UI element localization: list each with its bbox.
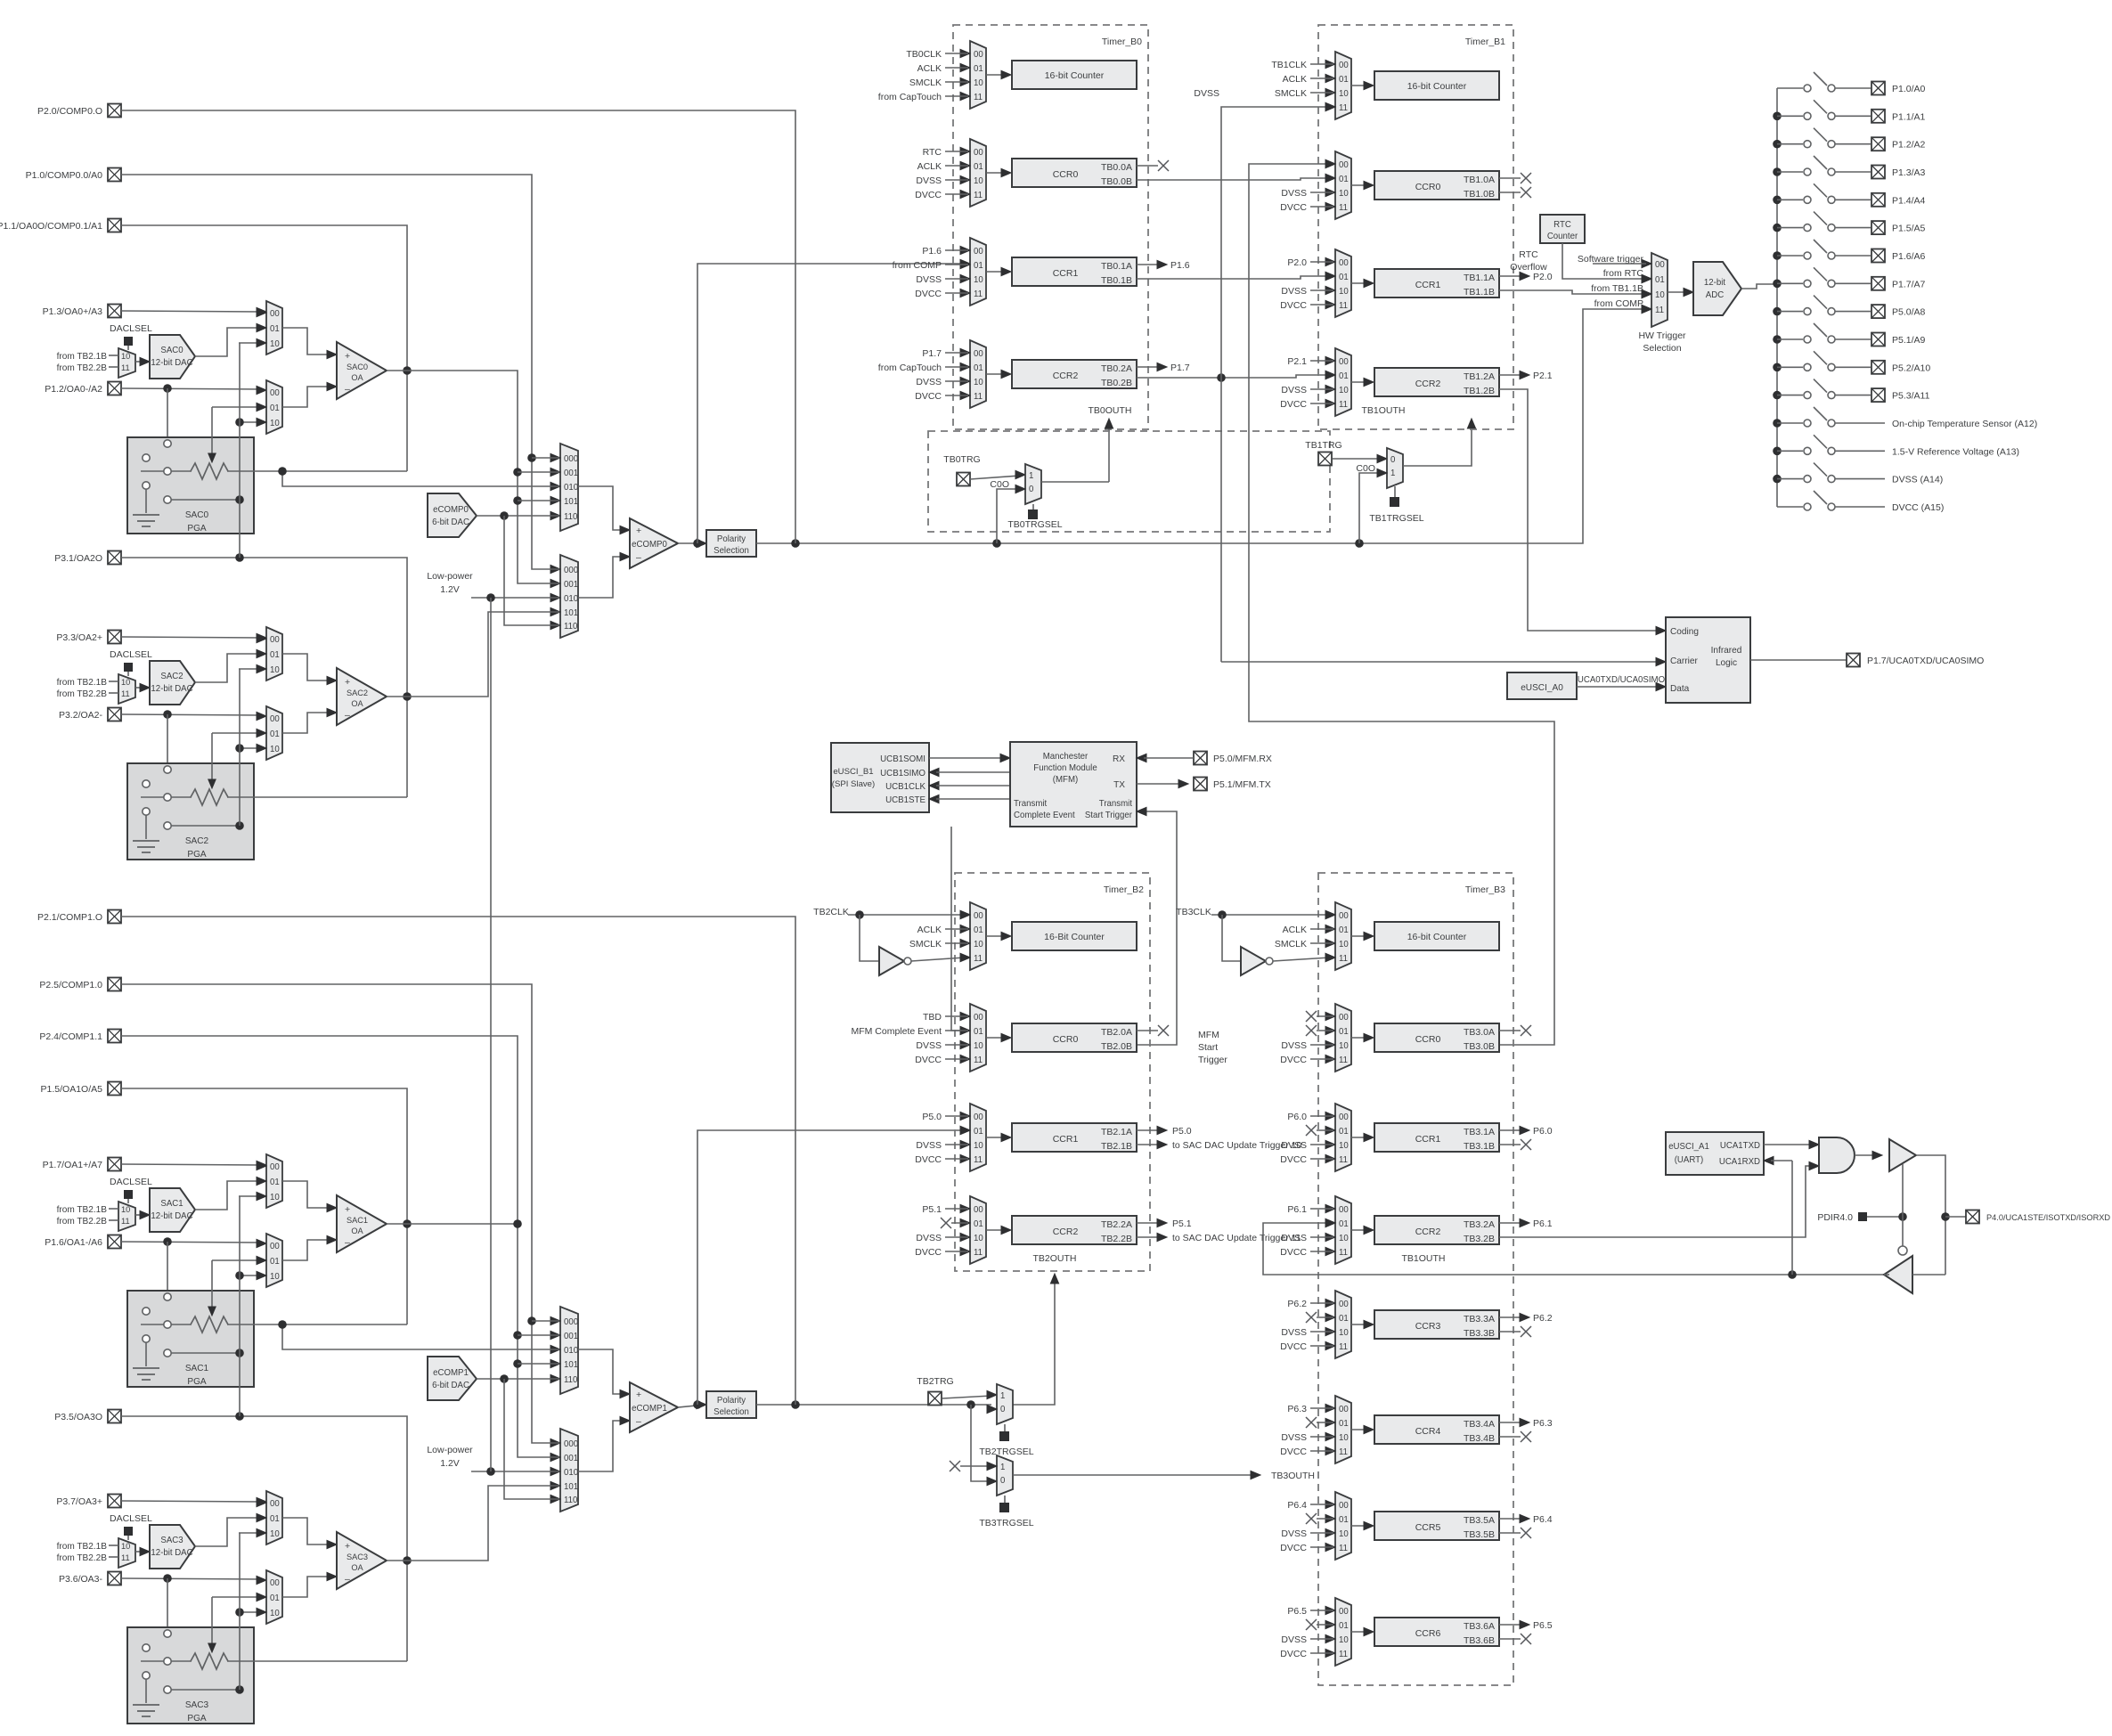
wire P1.1/OA0O feedback to SAC0 PGA [121,225,407,471]
dac SAC0 12-bit DAC [150,335,195,379]
pga SAC1 PGA block [127,1291,254,1387]
mux [970,340,986,408]
wire [171,499,240,501]
svg-text:DVCC: DVCC [1280,1055,1307,1065]
pin P1.7/OA1+/A7 [108,1158,121,1171]
wire TB0.2B to Timer_B1 CCR2 [1137,375,1330,378]
svg-text:00: 00 [1339,61,1349,70]
svg-text:00: 00 [270,1499,280,1509]
block Timer_B0 dashed box [953,25,1148,429]
svg-text:Timer_B1: Timer_B1 [1465,37,1505,47]
svg-text:CCR2: CCR2 [1053,371,1079,381]
svg-text:DVSS (A14): DVSS (A14) [1892,475,1943,485]
svg-text:P3.1/OA2O: P3.1/OA2O [54,553,102,564]
wire [1351,935,1367,937]
mux TB3 trigger select [997,1455,1013,1496]
svg-text:UCB1SIMO: UCB1SIMO [880,769,926,778]
svg-text:UCA0TXD/UCA0SIMO: UCA0TXD/UCA0SIMO [1578,675,1666,685]
register CCR0 [1374,1023,1499,1052]
svg-text:10: 10 [121,352,130,361]
svg-text:01: 01 [1339,273,1349,282]
wire [257,1498,266,1506]
svg-text:P2.1: P2.1 [1287,356,1307,367]
mux SAC2 positive input [266,627,282,681]
svg-text:00: 00 [270,1162,280,1172]
wire TB2 trigger to TB2OUTH [1013,1279,1055,1405]
wire [109,692,118,694]
wire [171,1689,240,1691]
svg-text:TB0.2B: TB0.2B [1101,378,1132,388]
svg-text:P5.0/MFM.RX: P5.0/MFM.RX [1213,754,1272,764]
svg-text:SAC0: SAC0 [347,363,368,371]
wire [1351,381,1367,383]
junction [513,496,522,505]
svg-text:TB1OUTH: TB1OUTH [1361,405,1405,416]
svg-text:DACLSEL: DACLSEL [110,1177,152,1187]
svg-text:TB2.1B: TB2.1B [1101,1141,1132,1152]
wire TB0 trigger output [1041,481,1109,483]
wire [109,1219,118,1221]
svg-text:01: 01 [1339,175,1349,184]
svg-text:from COMP: from COMP [893,260,942,271]
svg-text:DVSS: DVSS [916,175,942,186]
wire TB1.1A output P2.0 [1499,275,1521,277]
svg-text:ACLK: ACLK [917,63,942,74]
svg-text:1: 1 [1390,469,1395,478]
svg-text:00: 00 [1339,1013,1349,1023]
svg-text:P1.3/A3: P1.3/A3 [1892,167,1926,178]
svg-text:11: 11 [974,954,983,964]
svg-text:TB2.1A: TB2.1A [1101,1127,1132,1137]
svg-text:–: – [345,1574,350,1585]
svg-text:+: + [345,351,350,362]
wire [1351,1037,1367,1039]
wire [1351,282,1367,284]
mux SAC2 negative input [266,706,282,760]
mux [1335,1492,1351,1560]
wire [578,557,624,598]
junction [500,1374,509,1383]
wire UCA1RXD input [1764,1156,1774,1164]
svg-text:P3.7/OA3+: P3.7/OA3+ [56,1496,102,1507]
wire TB3.2B to AND gate [1499,1166,1814,1237]
pin P3.3/OA2+ [108,631,121,644]
svg-text:TB3.4B: TB3.4B [1464,1433,1495,1444]
switch ADC channel On-chip Temperature Sensor (A12) [1773,419,1782,428]
svg-text:(SPI Slave): (SPI Slave) [832,779,875,789]
wire cascade OA3O to SAC1 10 inputs [239,1353,241,1416]
wire [135,1551,144,1553]
svg-text:00: 00 [974,50,983,60]
svg-text:+: + [345,677,350,688]
svg-text:0: 0 [1390,455,1395,465]
wire [532,1320,559,1322]
svg-text:TB0.1B: TB0.1B [1101,275,1132,286]
svg-text:P2.4/COMP1.1: P2.4/COMP1.1 [39,1031,102,1042]
svg-text:P1.6/A6: P1.6/A6 [1892,251,1926,262]
svg-text:11: 11 [1339,1248,1348,1258]
dac SAC1 12-bit DAC [150,1188,195,1232]
mux SAC1 negative input [266,1234,282,1287]
mux [1335,348,1351,416]
svg-text:+: + [636,526,641,536]
wire [986,1137,1005,1138]
svg-text:P5.3/A11: P5.3/A11 [1892,391,1930,402]
junction [1898,1212,1907,1221]
wire OA3 output to eCOMP1 101 input [387,1486,559,1561]
wire [195,1181,261,1210]
wire IR output to pin [1750,659,1847,661]
svg-text:UCB1STE: UCB1STE [885,795,926,805]
svg-text:+: + [345,1541,350,1552]
pin P2.5/COMP1.0 [108,978,121,991]
counter 16-bit Counter [1012,922,1137,950]
junction [163,710,172,719]
svg-text:10: 10 [270,1272,280,1282]
wire TB1 trigger output to TB1OUTH [1403,424,1472,466]
svg-text:01: 01 [1339,1127,1349,1137]
block Manchester Function Module MFM [1010,742,1137,827]
junction [235,495,244,504]
wire TB3.4A output P6.3 [1499,1422,1521,1423]
svg-text:Timer_B3: Timer_B3 [1465,884,1505,895]
svg-text:CCR2: CCR2 [1415,1227,1441,1237]
wire [239,1195,261,1197]
wire polarity1 output bus [756,1404,991,1406]
pin P1.7/A7 [1871,277,1885,290]
register CCR2 [1012,1216,1137,1244]
svg-text:from TB2.1B: from TB2.1B [57,1205,108,1215]
register CCR0 [1012,1023,1137,1052]
svg-text:10: 10 [270,1609,280,1618]
wire PGA1 tap to eCOMP1 010 [282,1324,559,1349]
svg-text:11: 11 [974,1248,983,1258]
wire [135,687,144,689]
pin P1.5/A5 [1871,221,1885,234]
svg-text:11: 11 [1655,306,1664,315]
mux TB2 trigger select [997,1384,1013,1424]
svg-text:UCB1SOMI: UCB1SOMI [880,754,926,764]
svg-text:from CapTouch: from CapTouch [878,363,942,373]
svg-text:P2.0: P2.0 [1287,257,1307,268]
svg-text:TB2.0A: TB2.0A [1101,1027,1132,1038]
wire [109,1208,118,1210]
svg-text:OA: OA [351,699,363,708]
block TB0 trigger dashed box [928,431,1330,532]
svg-text:11: 11 [1339,301,1348,311]
wire PGA0 tap to eCOMP0 010 [282,471,559,486]
svg-text:TB0CLK: TB0CLK [906,49,942,60]
svg-text:Counter: Counter [1547,232,1578,241]
mux [970,139,986,207]
wire [986,1229,1005,1231]
svg-text:DVSS: DVSS [1281,1432,1307,1443]
svg-text:SMCLK: SMCLK [909,77,942,88]
wire polarity to TB2 trigger [987,1405,997,1413]
wire [504,1379,559,1499]
mux SAC1 positive input [266,1154,282,1208]
mux [1335,1291,1351,1358]
junction [235,553,244,562]
wire [986,373,1005,375]
svg-text:10: 10 [1339,1635,1349,1645]
switch ADC channel P1.2/A2 [1773,140,1782,149]
svg-text:1: 1 [1000,1391,1005,1401]
pin P5.2/A10 [1871,361,1885,374]
svg-text:001: 001 [564,469,578,478]
wire MFM TX [1137,783,1181,785]
wire [578,486,624,530]
junction [1941,1212,1950,1221]
svg-text:110: 110 [564,1496,577,1505]
svg-text:0: 0 [1000,1405,1005,1414]
svg-text:1: 1 [1000,1463,1005,1472]
svg-text:10: 10 [1339,940,1349,950]
wire TB0.0B to Timer_B1 CCR0 [1137,178,1330,180]
svg-text:DVSS: DVSS [1281,188,1307,199]
svg-text:P6.3: P6.3 [1533,1418,1553,1429]
svg-text:TB3.6A: TB3.6A [1464,1621,1495,1632]
wire [1668,291,1686,293]
svg-text:Start Trigger: Start Trigger [1085,811,1133,820]
svg-text:10: 10 [974,275,983,285]
svg-text:Complete Event: Complete Event [1014,811,1075,820]
wire OA0 output to eCOMP0 001 inputs [387,371,559,583]
svg-text:12-bit DAC: 12-bit DAC [151,1548,192,1558]
wire TB2.2B output [1137,1236,1158,1238]
junction [235,1608,244,1617]
wire [282,654,331,681]
wire [282,1240,331,1260]
wire pin tap [1945,1216,1966,1218]
svg-text:DVCC: DVCC [915,190,942,200]
dac eCOMP0 6-bit DAC [428,493,477,537]
wire C0O to TB0 trigger [997,489,1020,543]
svg-text:P1.6/OA1-/A6: P1.6/OA1-/A6 [45,1237,102,1248]
block eUSCI_B1 SPI Slave [831,743,929,812]
svg-text:TBD: TBD [923,1012,942,1023]
wire low-power long vertical [490,598,492,1471]
wire [240,1275,261,1276]
wire [212,1596,261,1598]
mux [970,1196,986,1264]
wire [109,355,118,356]
wire MFM transmit start trigger from TB2.0B [1137,811,1177,1045]
wire [1351,1229,1367,1231]
svg-text:from TB2.2B: from TB2.2B [57,1553,108,1563]
svg-text:DVSS: DVSS [1281,1634,1307,1645]
switch ADC channel P1.3/A3 [1773,167,1782,176]
pin P3.6/OA3- [108,1572,121,1585]
svg-text:10: 10 [1339,287,1349,297]
svg-text:16-bit Counter: 16-bit Counter [1407,81,1467,92]
svg-text:TB3.5B: TB3.5B [1464,1529,1495,1540]
svg-text:TB2.0B: TB2.0B [1101,1041,1132,1052]
svg-text:00: 00 [270,714,280,724]
wire [1351,1137,1367,1138]
svg-text:P5.1/MFM.TX: P5.1/MFM.TX [1213,779,1271,790]
svg-text:Selection: Selection [1643,343,1681,354]
svg-text:11: 11 [1339,954,1348,964]
svg-text:10: 10 [1339,189,1349,199]
wire TB2.0A no connect [1137,1030,1158,1031]
wire [167,388,168,439]
block Polarity Selection 0 [706,530,756,557]
block Timer_B1 dashed box [1318,25,1513,429]
svg-text:DVCC: DVCC [1280,300,1307,311]
wire [257,308,266,316]
svg-text:10: 10 [270,419,280,428]
wire [986,74,1005,76]
wire [471,597,559,599]
svg-text:HW Trigger: HW Trigger [1638,330,1686,341]
svg-text:10: 10 [1655,290,1665,300]
wire [109,1544,118,1546]
wire PDIR to enables [1867,1216,1903,1218]
wire [970,476,1020,479]
wire TB3.2A output P6.1 [1499,1222,1521,1224]
node TB0TRGSEL [1032,504,1034,509]
svg-text:16-Bit Counter: 16-Bit Counter [1044,932,1105,942]
svg-text:Timer_B2: Timer_B2 [1104,884,1144,895]
svg-text:TB0.0B: TB0.0B [1101,176,1132,187]
junction [500,511,509,520]
svg-text:On-chip Temperature Sensor (A1: On-chip Temperature Sensor (A12) [1892,419,2037,429]
junction [1218,910,1227,919]
svg-text:00: 00 [1339,911,1349,921]
svg-text:CCR5: CCR5 [1415,1522,1441,1533]
wire TB3.5B no connect [1499,1532,1521,1534]
svg-text:00: 00 [974,1013,983,1023]
wire [167,1578,168,1629]
svg-text:Timer_B0: Timer_B0 [1102,37,1142,47]
inverter input receiver [1884,1256,1912,1293]
junction [693,1400,702,1409]
svg-text:P1.7: P1.7 [922,348,942,359]
svg-text:P5.1: P5.1 [922,1204,942,1215]
svg-text:OA: OA [351,1227,363,1235]
svg-text:01: 01 [270,1178,280,1187]
pin P3.5/OA3O [108,1410,121,1423]
wire feedback resistor line [141,470,192,472]
svg-text:TB3.2B: TB3.2B [1464,1234,1495,1244]
pin P2.4/COMP1.1 [108,1030,121,1043]
wire feedback resistor line [141,1324,192,1325]
pga SAC0 PGA block [127,437,254,534]
svg-text:P2.0/COMP0.O: P2.0/COMP0.O [37,106,102,117]
switch ADC channel P1.0/A0 [1777,87,1803,89]
svg-text:DVSS: DVSS [916,1233,942,1243]
wire [211,407,213,455]
svg-text:DVSS: DVSS [1281,1528,1307,1539]
svg-text:P1.6: P1.6 [922,246,942,257]
switch ADC channel P1.5/A5 [1773,224,1782,232]
wire dac to 110 inputs [477,515,559,517]
ground SAC0 PGA [145,489,147,513]
svg-text:01: 01 [974,261,983,271]
dac SAC3 12-bit DAC [150,1525,195,1569]
svg-text:01: 01 [270,324,280,334]
svg-text:P4.0/UCA1STE/ISOTXD/ISORXD: P4.0/UCA1STE/ISOTXD/ISORXD [1986,1213,2110,1222]
svg-text:010: 010 [564,594,578,604]
svg-text:DVCC: DVCC [915,1055,942,1065]
svg-text:DVSS: DVSS [1194,88,1219,99]
wire UCB1SIMO [929,768,939,776]
svg-text:000: 000 [564,454,578,464]
svg-text:DVCC: DVCC [1280,1543,1307,1553]
dac SAC2 12-bit DAC [150,661,195,705]
svg-text:11: 11 [1339,1055,1348,1065]
junction [235,1412,244,1421]
op-amp SAC0 OA [337,342,387,399]
wire [195,328,261,356]
wire TB3.5A output P6.4 [1499,1518,1521,1520]
svg-text:+: + [636,1390,641,1400]
svg-text:01: 01 [1339,1314,1349,1324]
svg-text:P1.5/A5: P1.5/A5 [1892,224,1926,234]
junction [235,744,244,753]
wire TB2.1B output [1137,1144,1158,1145]
block RTC Counter [1540,215,1585,243]
svg-text:P5.0: P5.0 [1172,1126,1192,1137]
svg-text:00: 00 [1339,1405,1349,1414]
block Polarity Selection 1 [706,1391,756,1418]
svg-text:DVCC: DVCC [915,1247,942,1258]
wire TB0.2A output P1.7 [1137,366,1158,368]
pin P1.2/A2 [1871,137,1885,151]
svg-text:DACLSEL: DACLSEL [110,1513,152,1524]
wire [986,271,1005,273]
mux [1335,1104,1351,1171]
junction [235,1271,244,1280]
svg-text:01: 01 [270,1514,280,1524]
wire [195,1518,261,1546]
wire MFM RX [1137,754,1146,762]
svg-text:ACLK: ACLK [1283,925,1307,935]
wire [1351,1324,1367,1325]
svg-text:–: – [345,1237,350,1248]
svg-text:000: 000 [564,1439,578,1449]
wire [1351,1525,1367,1527]
wire [518,500,559,501]
wire [1333,458,1382,460]
wire eCOMP1 raw output to TB2 CCR1 [697,1130,965,1405]
svg-text:Infrared: Infrared [1711,646,1742,656]
wire UCA1TXD to AND gate [1764,1144,1814,1145]
wire [986,172,1005,174]
wire OA2 output to eCOMP0 101 input [387,612,559,697]
wire [109,1556,118,1558]
svg-text:Trigger: Trigger [1198,1055,1227,1065]
svg-text:11: 11 [1339,1447,1348,1457]
svg-text:P6.5: P6.5 [1533,1620,1553,1631]
wire [171,1352,240,1354]
svg-text:eUSCI_A1: eUSCI_A1 [1668,1142,1709,1152]
svg-text:RTC: RTC [923,147,942,158]
svg-text:01: 01 [1339,75,1349,85]
pin P1.3/A3 [1871,166,1885,179]
svg-text:10: 10 [974,1041,983,1051]
pin P1.0/COMP0.0/A0 [108,168,121,182]
svg-text:P5.0: P5.0 [922,1112,942,1122]
svg-text:12-bit DAC: 12-bit DAC [151,684,192,694]
counter 16-bit Counter [1374,71,1499,100]
svg-text:SAC3: SAC3 [347,1553,368,1561]
pin P1.2/OA0-/A2 [108,382,121,395]
junction [403,692,412,701]
svg-text:10: 10 [974,378,983,387]
wire TB1.2B to IR coding [1499,389,1660,631]
